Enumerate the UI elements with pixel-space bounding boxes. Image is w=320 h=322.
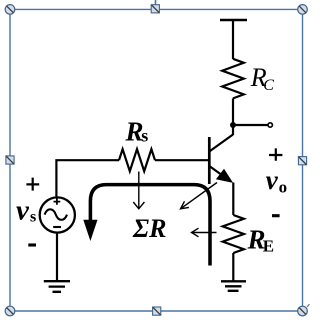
thin left arrow at RE bbox=[192, 232, 217, 234]
edge handle right-middle bbox=[298, 157, 306, 165]
wire node to output terminal bbox=[233, 124, 268, 126]
anchor stub above top-middle handle bbox=[155, 0, 157, 5]
svg-text:s: s bbox=[30, 208, 36, 225]
wire supply to RC bbox=[232, 20, 234, 59]
corner handle top-right bbox=[298, 5, 308, 15]
wire vs corner to Rs bbox=[56, 160, 119, 197]
selection border right bbox=[302, 9, 304, 311]
plus inside vs bbox=[54, 199, 61, 205]
ground vs bbox=[44, 281, 70, 292]
edge handle bottom-middle bbox=[153, 307, 161, 315]
label minus left bbox=[28, 243, 36, 246]
transistor base bar bbox=[208, 137, 211, 184]
selection border top bbox=[10, 8, 303, 10]
wire RC to node bbox=[232, 98, 234, 135]
label plus right bbox=[269, 148, 282, 160]
source vs circle bbox=[40, 197, 75, 232]
supply rail bar bbox=[220, 19, 247, 22]
edge handle top-middle bbox=[151, 5, 159, 13]
svg-text:v: v bbox=[16, 194, 30, 226]
ground RE bbox=[221, 281, 246, 291]
svg-text:v: v bbox=[266, 165, 279, 195]
label plus left bbox=[26, 178, 39, 191]
resistor RE bbox=[223, 215, 244, 253]
label minus right bbox=[272, 214, 280, 217]
corner handle top-left bbox=[5, 5, 15, 15]
transistor collector lead bbox=[209, 135, 233, 152]
wire Rs to base bbox=[155, 159, 209, 161]
svg-text:E: E bbox=[263, 237, 274, 256]
resistor RC bbox=[222, 59, 244, 99]
wire vs to ground bbox=[56, 233, 58, 282]
cursor tick near bottom-right corner bbox=[307, 304, 310, 307]
thin diagonal arrow to SigmaR bbox=[181, 183, 217, 209]
transistor emitter arrowhead bbox=[216, 169, 233, 183]
thick arrowhead bbox=[83, 220, 97, 241]
resistor Rs bbox=[119, 149, 155, 171]
corner handle bottom-left bbox=[5, 306, 15, 316]
edge handle left-middle bbox=[6, 156, 14, 164]
selection border left bbox=[9, 9, 11, 311]
thin down arrow below Rs bbox=[138, 172, 140, 209]
output terminal circle bbox=[268, 123, 272, 127]
minus inside vs bbox=[53, 226, 61, 228]
svg-text:C: C bbox=[263, 77, 274, 94]
emitter vertical wire bbox=[232, 183, 234, 216]
thick feedback arrow curve SigmaR bbox=[90, 185, 210, 266]
selection border bottom bbox=[10, 310, 303, 312]
svg-text:ΣR: ΣR bbox=[132, 214, 166, 243]
svg-text:s: s bbox=[141, 125, 148, 145]
corner handle bottom-right bbox=[298, 306, 308, 316]
svg-text:o: o bbox=[279, 178, 288, 197]
wire RE to ground bbox=[232, 253, 234, 281]
node dot at collector bbox=[230, 122, 236, 128]
sine wave in vs bbox=[45, 209, 67, 220]
transistor emitter lead bbox=[209, 166, 226, 178]
